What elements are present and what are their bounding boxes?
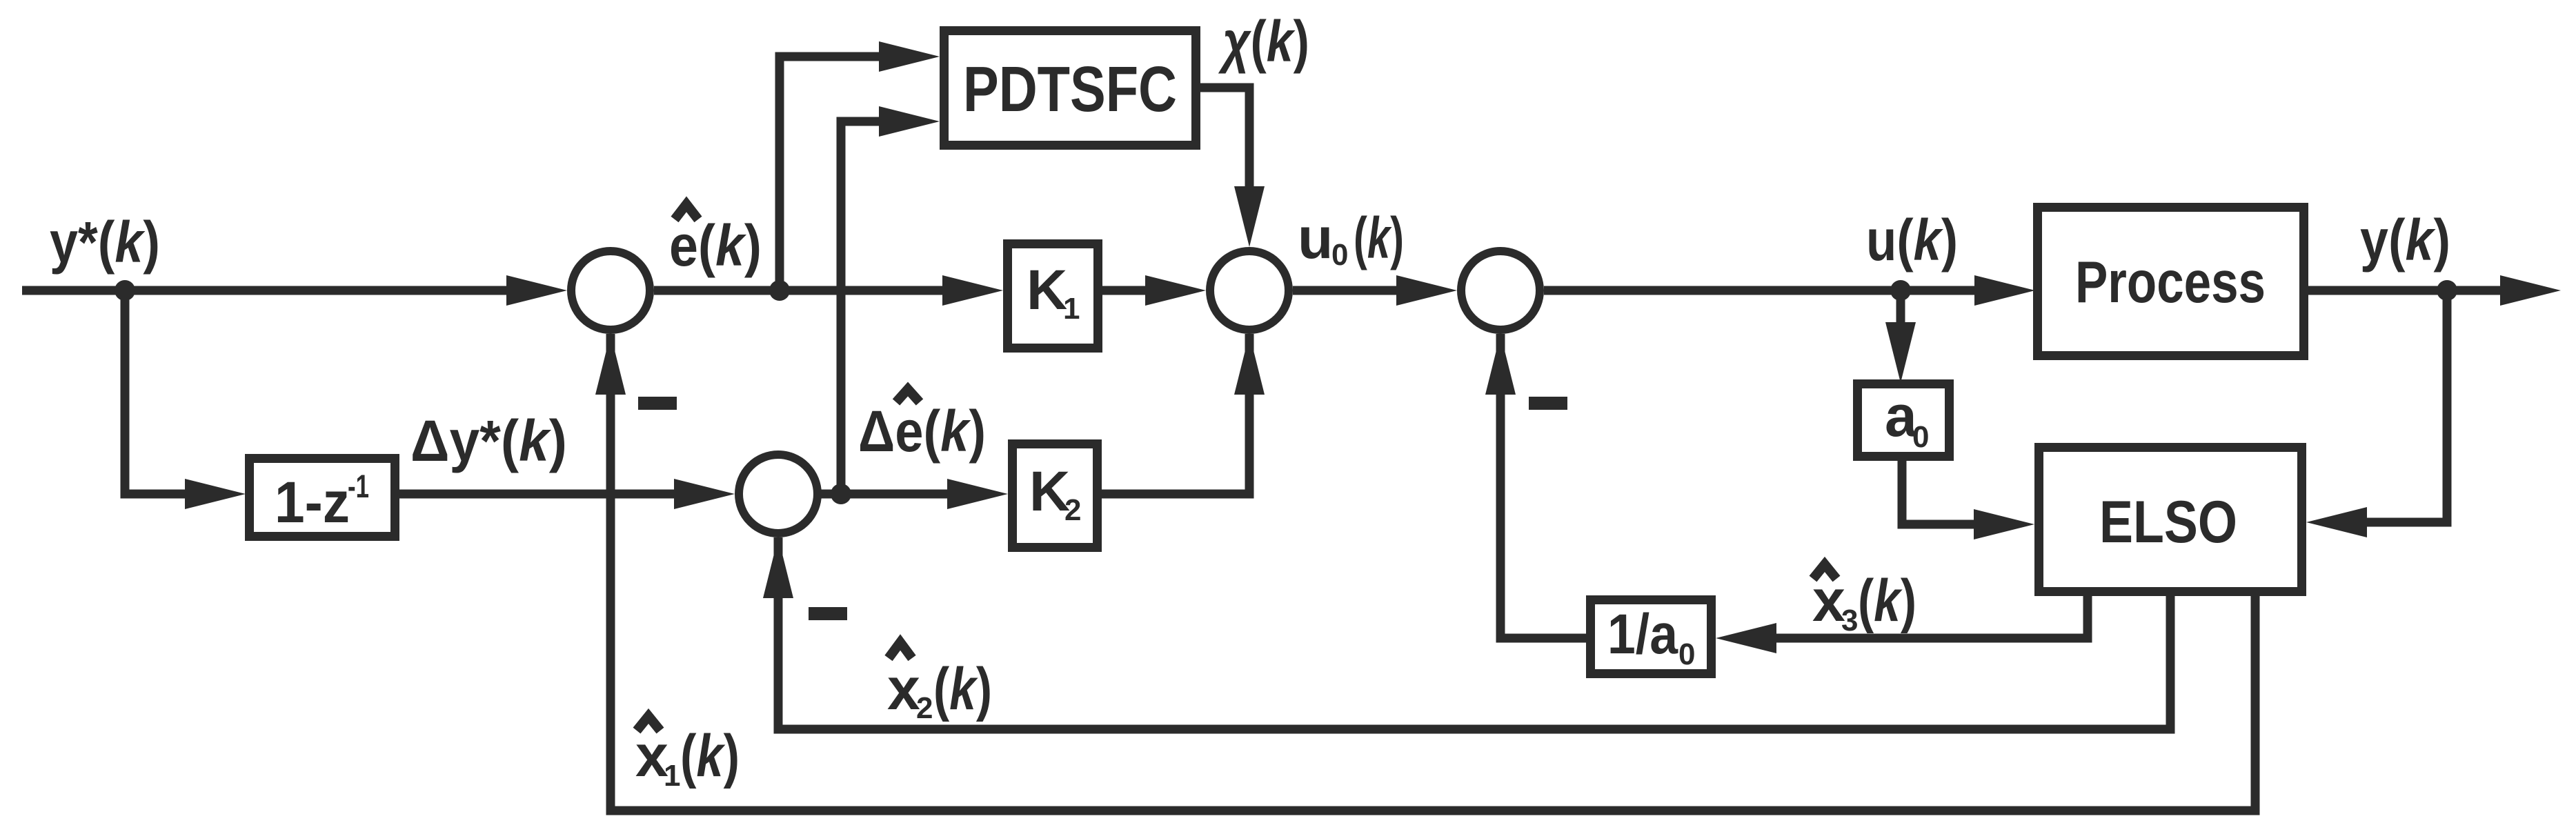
minus sign at S1 [638,397,677,410]
minus sign at S2 [809,607,847,620]
svg-text:PDTSFC: PDTSFC [963,53,1177,125]
arrowhead minus into S1 from x1hat [595,334,626,395]
wire y(k) output [2308,286,2500,295]
arrowhead into block 1-z-1 [185,479,246,509]
block K1 [1008,244,1098,348]
arrowhead into S4 [1396,275,1457,306]
arrowhead into summing junction S2 [674,479,735,509]
minus sign at S4 [1529,397,1567,410]
node u(k) branch dot [1890,280,1911,301]
wire Delta-e-hat to K2 [818,490,966,499]
node y*(k) branch dot [115,280,135,301]
hat over x of x3-hat(k) [1813,564,1836,579]
arrowhead into block K1 [942,275,1003,306]
wire x3-hat from ELSO to 1/a0 [1766,596,2088,638]
block PDTSFC [944,31,1196,146]
arrowhead x3 into 1/a0 [1716,623,1776,653]
svg-text:(k): (k) [1858,568,1916,634]
wire from K2 up into S3 [1102,334,1249,494]
svg-text:χ(k): χ(k) [1218,9,1309,74]
block ELSO [2039,448,2302,592]
arrowhead into block K2 [947,479,1008,509]
block Process [2038,208,2304,356]
svg-text:(k): (k) [933,656,992,722]
svg-text:ELSO: ELSO [2099,489,2237,555]
arrowhead into PDTSFC input 2 [879,106,940,137]
svg-text:Δy*(k): Δy*(k) [410,408,567,473]
svg-text:1/a: 1/a [1607,603,1678,666]
svg-text:u(k): u(k) [1866,208,1958,273]
arrowhead chi into S3 top [1234,186,1265,247]
block 1/a0 [1591,600,1712,674]
arrowhead minus into S2 from x2hat [763,537,793,598]
hat over e of e-hat(k) [675,204,698,219]
hat over e of Delta-e-hat(k) [896,389,920,402]
svg-text:0: 0 [1912,420,1929,454]
arrowhead into PDTSFC input 1 [879,41,940,72]
summing junction S1 [571,251,650,330]
svg-text:e(k): e(k) [669,213,762,278]
arrowhead into a0 [1885,322,1916,383]
svg-text:1-z: 1-z [275,470,350,535]
wire 1/a0 to S4 minus input [1500,334,1586,638]
wire e-hat from S1 to K1 [654,286,959,295]
hat over x of x1-hat(k) [637,716,660,731]
svg-text:3: 3 [1841,604,1858,637]
block a0 [1858,384,1950,457]
svg-text:Process: Process [2075,250,2266,315]
svg-text:-1: -1 [348,468,369,504]
svg-text:(k): (k) [1354,206,1404,270]
arrowhead y into ELSO [2306,507,2367,537]
wire u(k) down to a0 [1896,290,1905,331]
hat over x of x2-hat(k) [889,642,912,658]
node e-hat branch dot [769,280,790,301]
svg-text:0: 0 [1331,238,1348,272]
wire S3 to summing junction S4 [1293,286,1414,295]
summing junction S4 [1461,251,1540,330]
wire chi(k) from PDTSFC to summing junction S3 [1200,88,1249,207]
arrowhead K2 path into S3 bottom [1234,334,1265,395]
svg-text:Δe(k): Δe(k) [858,399,986,464]
svg-text:1: 1 [664,759,680,793]
arrowhead into summing junction S1 [506,275,567,306]
arrowhead into Process [1974,275,2035,306]
arrowhead minus into S4 from 1/a0 [1485,334,1516,395]
wire a0 to ELSO input [1902,461,1987,524]
block 1-z-1 [250,459,395,537]
svg-text:y(k): y(k) [2360,208,2450,273]
arrowhead K1 into S3 [1145,275,1206,306]
wire y*(k) input [22,286,514,295]
block K2 [1013,444,1098,548]
svg-text:(k): (k) [680,723,740,789]
svg-text:K: K [1027,259,1067,321]
arrowhead a0 into ELSO [1974,509,2034,539]
wire u(k) from S4 to Process [1544,286,1994,295]
summing junction S2 [739,455,818,533]
svg-text:2: 2 [916,691,933,725]
svg-text:1: 1 [1063,292,1080,326]
wire Delta-e-hat up to PDTSFC input 2 [841,121,897,494]
wire x2-hat from ELSO to S2 [778,537,2170,729]
wire x1-hat from ELSO to S1 [611,334,2255,811]
wire K1 to summing junction S3 [1102,286,1166,295]
svg-text:2: 2 [1064,493,1081,527]
node y(k) branch dot [2437,280,2457,301]
wire e-hat up to PDTSFC input 1 [780,57,897,290]
svg-text:y*(k): y*(k) [50,210,160,275]
svg-text:u: u [1298,206,1333,270]
svg-text:0: 0 [1678,637,1695,671]
arrowhead output y(k) [2500,275,2561,306]
summing junction S3 u0 [1210,251,1289,330]
svg-text:x: x [887,656,920,722]
wire y*(k) down to 1-z-1 block [125,290,200,494]
wire Delta-y*(k) to summing junction S2 [399,490,690,499]
node Delta-e-hat branch dot [831,484,851,504]
wire y(k) down into ELSO right [2359,290,2447,522]
